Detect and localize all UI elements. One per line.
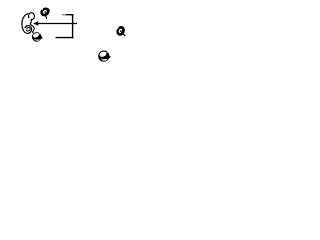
bracket bottom horizontal: [56, 37, 74, 39]
wire: arrow line: [37, 23, 77, 25]
small icon C (tilted dark swirl with tail, right side): [115, 25, 126, 37]
bracket top horizontal: [62, 14, 66, 16]
small icon B (snail: dark disc, white kidney, below handset): [32, 32, 43, 42]
telephone handset U1 (large outline): [22, 13, 34, 34]
small icon D (snail: dark disc, white kidney, bottom): [98, 50, 111, 61]
handset cord: [30, 24, 34, 33]
arrowhead: [33, 21, 38, 25]
bracket vertical: [72, 14, 74, 38]
small icon A (tilted dark swirl with tail, top middle): [39, 6, 52, 19]
